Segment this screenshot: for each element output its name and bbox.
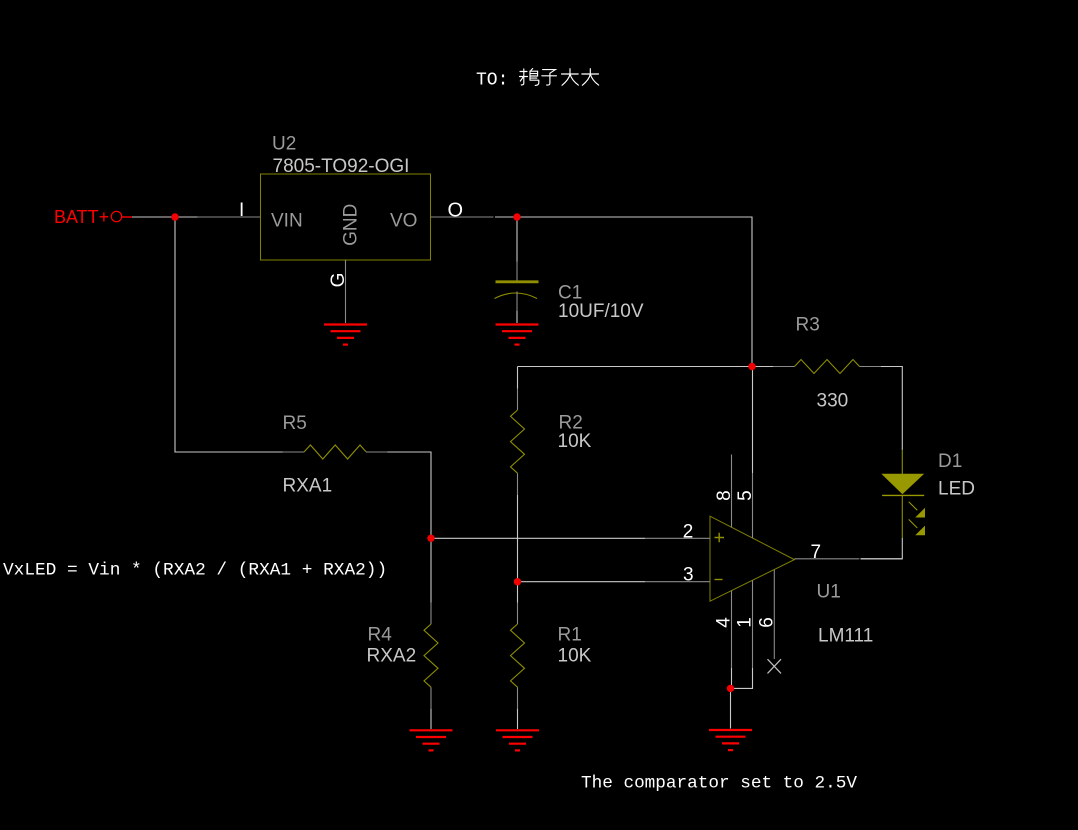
R4 zigzag [424, 624, 438, 687]
svg-text:3: 3 [683, 565, 694, 586]
svg-text:5: 5 [735, 490, 756, 501]
svg-text:R1: R1 [558, 625, 582, 646]
diode D1 LED [881, 450, 975, 539]
ground under U2 [324, 325, 367, 345]
pin I stub of U2 [198, 216, 261, 218]
svg-text:The comparator set to 2.5V: The comparator set to 2.5V [581, 774, 857, 794]
CJK char 子 [542, 70, 557, 85]
wire C1 bottom [516, 292, 518, 312]
R5 left pin stub [283, 451, 305, 453]
svg-text:4: 4 [714, 617, 735, 628]
wire U2 GND pin down [345, 260, 347, 323]
node junction at 431,538.3 [427, 535, 434, 542]
svg-text:D1: D1 [938, 451, 962, 472]
R3 zigzag [795, 360, 860, 374]
node junction at 730.5,688.4 [727, 685, 734, 692]
ground under pins 4/1 [709, 730, 752, 750]
wire R5 right to junction column [388, 452, 432, 538]
svg-text:TO:: TO: [476, 71, 508, 91]
op-amp U1 triangle [710, 516, 873, 646]
svg-text:2: 2 [683, 522, 694, 543]
R5 right pin stub [366, 451, 388, 453]
wire R4 bottom [430, 687, 432, 709]
minus input mark [715, 579, 723, 581]
resistor R3 [752, 315, 902, 451]
wire R1 top [517, 582, 519, 603]
wire BATT+ to U2 VIN [132, 216, 198, 218]
title text TO: 鸦子大大 [476, 69, 599, 91]
wire pin 6 down [773, 570, 775, 660]
CJK char 大 [562, 69, 579, 86]
svg-text:R4: R4 [368, 625, 393, 646]
pin 7 wire from op-amp output [794, 558, 859, 560]
node junction at 517.5,581.7 [514, 578, 521, 585]
ground under C1 [496, 325, 539, 345]
R1 zigzag [511, 624, 525, 687]
C1 bottom curved plate [495, 293, 538, 299]
svg-text:7: 7 [811, 542, 822, 563]
node junction at 752,366.5 [748, 363, 755, 370]
D1 cathode lead [901, 495, 903, 538]
svg-text:O: O [448, 200, 464, 222]
wire R4 top [430, 538, 432, 602]
D1 anode lead [901, 450, 903, 475]
wire pin 5 from R3 junction [752, 367, 754, 474]
wire pin 1 down and jog to pin 4 [752, 580, 754, 668]
svg-text:RXA1: RXA1 [283, 476, 333, 497]
regulator U2 box [261, 174, 431, 260]
wire R3 right [860, 366, 882, 368]
R2 zigzag [511, 410, 525, 473]
C1 top plate [496, 280, 539, 283]
svg-text:I: I [239, 200, 244, 221]
svg-text:VIN: VIN [271, 211, 303, 232]
wire R2 top [517, 367, 519, 389]
wire U2 VO to right rail [495, 217, 752, 367]
resistor R1 [511, 582, 592, 729]
D1 light arrow 2 [909, 519, 918, 528]
no-connect X on pin 6 [768, 659, 782, 673]
svg-text:7805-TO92-OGI: 7805-TO92-OGI [273, 156, 410, 177]
ground under R1 [496, 730, 539, 750]
svg-text:LM111: LM111 [818, 626, 873, 647]
svg-text:VxLED = Vin * (RXA2 / (RXA1 +: VxLED = Vin * (RXA2 / (RXA1 + RXA2)) [3, 561, 387, 581]
D1 light arrow 1 [909, 502, 918, 511]
BATT+ terminal circle [111, 211, 121, 221]
D1 anode triangle [881, 474, 924, 495]
node junction at 175,217 [171, 213, 178, 220]
svg-text:U1: U1 [817, 582, 841, 603]
svg-text:LED: LED [938, 479, 975, 500]
wire D1 cathode to pin 7 [861, 538, 903, 559]
wire R2 top rail to R3 junction [518, 366, 753, 368]
svg-text:R3: R3 [796, 315, 820, 336]
wire red stub from BATT+ circle [122, 216, 132, 218]
svg-text:10UF/10V: 10UF/10V [558, 301, 644, 322]
wire junction to ground [730, 688, 732, 728]
svg-text:6: 6 [756, 617, 777, 628]
svg-text:VO: VO [390, 211, 417, 232]
pin 8 stub [731, 455, 733, 528]
CJK char 鸦 [520, 69, 528, 85]
ground under R4 [410, 730, 453, 750]
CJK char 大 [582, 69, 599, 86]
svg-text:U2: U2 [272, 134, 296, 155]
plus input mark [715, 533, 725, 542]
wire R1 bottom [517, 687, 519, 709]
D1 cathode bar [882, 494, 924, 496]
svg-text:330: 330 [817, 391, 849, 412]
node junction at 517,217 C1 tap [513, 213, 520, 220]
wire pin 4 down [731, 591, 733, 668]
svg-text:GND: GND [341, 204, 362, 246]
R5 zigzag [304, 445, 366, 459]
svg-text:10K: 10K [558, 431, 592, 452]
wire R2 bottom to pin3 junction [517, 473, 519, 495]
svg-text:8: 8 [714, 490, 735, 501]
svg-text:R5: R5 [283, 413, 307, 434]
resistor R4 [367, 538, 439, 729]
resistor R2 [511, 367, 592, 582]
svg-text:RXA2: RXA2 [367, 646, 417, 667]
wire R3 left [752, 366, 773, 368]
wire pin 3 rail [518, 581, 646, 583]
wire down from junction to R5 rail [175, 217, 283, 452]
resistor R5 [283, 413, 432, 538]
wire C1 top [516, 217, 518, 262]
svg-text:BATT+: BATT+ [54, 207, 109, 227]
wire pin 2 rail [431, 537, 645, 539]
pin O stub of U2 [431, 216, 494, 218]
svg-text:1: 1 [735, 617, 756, 628]
capacitor C1 [495, 217, 644, 323]
svg-text:10K: 10K [558, 646, 592, 667]
